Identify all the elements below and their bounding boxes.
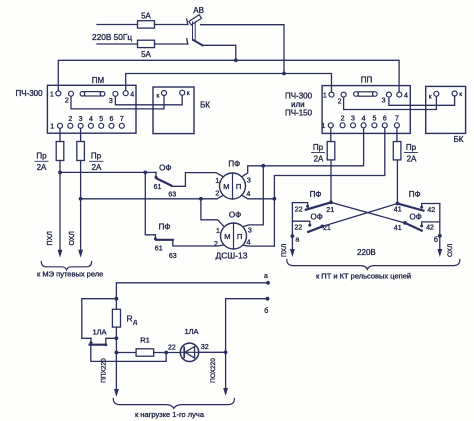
label 42 OF right — [426, 225, 434, 232]
junction T4 line / vertical B — [273, 197, 277, 201]
label PPH220 rotated — [101, 358, 108, 383]
svg-text:3: 3 — [351, 116, 355, 123]
svg-text:б: б — [434, 236, 438, 244]
junction node b — [438, 234, 442, 238]
svg-text:61: 61 — [154, 184, 162, 191]
svg-text:3: 3 — [109, 98, 113, 105]
junction L2/AV — [282, 72, 286, 76]
svg-text:6: 6 — [383, 116, 387, 123]
svg-text:4: 4 — [404, 93, 408, 100]
svg-text:2: 2 — [68, 116, 72, 123]
circuit breaker AV — [187, 15, 203, 46]
svg-text:ПХЛ: ПХЛ — [47, 231, 54, 246]
svg-text:220В 50Гц: 220В 50Гц — [92, 32, 132, 42]
svg-text:ПМ: ПМ — [92, 76, 105, 85]
label BK right — [454, 135, 464, 144]
junction node a bottom — [266, 281, 270, 285]
contact PF 42-41 fixed — [420, 204, 440, 209]
junction POH220 — [224, 350, 228, 354]
wire POH220 down — [223, 352, 228, 396]
svg-text:Пр: Пр — [406, 143, 417, 152]
PM bottom terminals 1-7 — [50, 116, 124, 130]
wire PP right fuse down — [396, 160, 398, 204]
svg-text:41: 41 — [394, 206, 402, 213]
svg-text:П: П — [237, 232, 242, 241]
wire diagonal D2 (PF-21 to OF-41) — [331, 202, 405, 223]
label 1LA lamp — [184, 327, 198, 336]
brace to ME track relays — [41, 262, 91, 270]
junction R1 row left — [115, 351, 119, 355]
wire left 22 vertical — [292, 203, 311, 227]
svg-text:к МЭ путевых реле: к МЭ путевых реле — [37, 270, 103, 279]
label OHL right rotated — [447, 244, 454, 257]
svg-text:2А: 2А — [314, 154, 324, 163]
contact OF 42-41 blade — [405, 223, 422, 231]
svg-text:д: д — [133, 319, 137, 326]
svg-text:ОХЛ: ОХЛ — [69, 231, 76, 246]
label node b — [434, 236, 438, 244]
wire node b line — [226, 299, 268, 353]
label DSSh1 pin1 — [215, 178, 219, 185]
capacitor block BK left box — [153, 87, 194, 134]
label Pr 2A right — [90, 152, 104, 172]
PM terminal 1 top — [50, 91, 61, 99]
svg-text:1ЛА: 1ЛА — [184, 327, 198, 336]
wire net L2 (AV pole1 to PM-4 and PP-1) — [126, 74, 332, 92]
junction L1/AV — [234, 58, 238, 62]
lamp arrester 1LA circle — [180, 343, 198, 361]
svg-text:42: 42 — [427, 207, 435, 214]
svg-text:22: 22 — [168, 344, 176, 351]
label OF left block — [311, 212, 323, 221]
wire 1LA branch — [82, 299, 117, 339]
wire node b down — [437, 222, 442, 257]
relay DSSh-13 element PF circle — [220, 173, 246, 199]
svg-text:2: 2 — [341, 116, 345, 123]
label 220V output — [357, 248, 376, 257]
label PF element — [228, 159, 240, 168]
svg-text:2: 2 — [338, 99, 342, 106]
junction node b bottom — [266, 297, 270, 301]
contact PF 61-63 blade — [156, 239, 173, 241]
fuse 5A bottom — [138, 40, 188, 47]
label 32 lamp — [201, 344, 209, 351]
svg-text:3: 3 — [382, 98, 386, 105]
contact PF 42-41 blade — [397, 204, 423, 211]
svg-text:42: 42 — [426, 225, 434, 232]
svg-text:П: П — [236, 182, 241, 191]
junction PHL/net P1 — [58, 171, 62, 175]
junction net P1 / OF contact — [143, 171, 147, 175]
capacitor block BK right box — [426, 86, 466, 133]
wire net P1 down to PF contact — [145, 172, 155, 234]
label DSSh2 pin2 — [214, 241, 218, 248]
label PF right block — [409, 190, 421, 199]
svg-text:1ЛА: 1ЛА — [92, 328, 106, 337]
svg-text:1: 1 — [321, 123, 325, 130]
svg-text:220В: 220В — [357, 248, 376, 257]
wire net P2 down to DSSh2 T1 — [201, 199, 224, 227]
svg-text:6: 6 — [110, 116, 114, 123]
svg-text:61: 61 — [155, 245, 163, 252]
svg-text:ПХЛ: ПХЛ — [281, 244, 288, 257]
wire 220V phase 2 input — [97, 43, 138, 45]
svg-text:Пр: Пр — [313, 143, 324, 152]
svg-text:к: к — [187, 90, 190, 97]
label OHL rotated — [69, 231, 76, 246]
jumper link PP 2-3 — [354, 92, 378, 97]
PM terminal 3 top — [109, 91, 118, 105]
svg-text:2: 2 — [65, 98, 69, 105]
junction left fuse / PF-21 — [329, 201, 333, 205]
PP terminal 4 top — [397, 92, 408, 100]
fuse Pr 2A PP left — [327, 142, 335, 160]
label DSSh2 pin4 — [247, 240, 251, 247]
junction 1LA/main — [115, 336, 119, 340]
wire AV pole1 output — [201, 25, 284, 74]
label Pr 2A PP left — [312, 143, 325, 164]
label POH220 rotated — [210, 358, 217, 383]
svg-text:Пр: Пр — [36, 152, 47, 161]
junction OF-21 — [320, 225, 324, 229]
wire DSSh1 T3 to PP-4 — [242, 128, 364, 177]
svg-text:к: к — [156, 92, 159, 99]
label Pr 2A left — [35, 152, 48, 172]
svg-text:М: М — [223, 182, 229, 191]
label PHL right rotated — [281, 244, 288, 257]
svg-text:2А: 2А — [407, 154, 417, 163]
label PHL rotated — [47, 231, 54, 246]
contact 1LA blade — [90, 343, 108, 346]
wire PP bottom 1 to fuse — [330, 128, 332, 141]
wire DSSh1 T4 — [242, 195, 275, 199]
svg-text:4: 4 — [247, 240, 251, 247]
wire 1LA blade to main — [106, 338, 117, 344]
resistor Rd — [112, 309, 120, 327]
label k PT i KT relsovyh cepей — [316, 272, 411, 281]
contact PF 61-63 fixed — [154, 235, 157, 241]
label DSSh1 pin3 — [247, 178, 251, 185]
wire to R1 — [116, 352, 136, 354]
wire OF blade to DSSh1 T1 — [171, 173, 223, 187]
label 5A top — [141, 12, 151, 21]
label BK left — [200, 100, 210, 109]
BK left terminal k2 — [180, 90, 190, 97]
label OF upper contact — [159, 164, 171, 173]
label PCh-300 — [15, 89, 43, 98]
wire PM-2 to BK left k — [71, 96, 164, 109]
label DSSh2 pin3 — [248, 228, 252, 235]
svg-text:5А: 5А — [141, 50, 151, 59]
label 5A bottom — [141, 50, 151, 59]
label 1LA contact — [92, 328, 106, 337]
wire PP bottom 7 to fuse — [396, 128, 398, 141]
svg-text:63: 63 — [169, 253, 177, 260]
label DSSh1 pin4 — [246, 191, 250, 198]
junction net P2 / DSSh2 T1 — [199, 197, 203, 201]
svg-text:3: 3 — [79, 116, 83, 123]
wire net P2 horizontal to DSSh1 T2 — [81, 195, 224, 199]
relay DSSh-13 element OF circle — [221, 223, 247, 249]
transformer PM box — [47, 85, 136, 133]
wire lamp to POH220 — [199, 351, 226, 353]
label 21 OF left — [323, 225, 331, 232]
resistor R1 — [136, 349, 154, 356]
label OF right block — [410, 212, 422, 221]
svg-text:5: 5 — [99, 116, 103, 123]
label PF left block — [310, 190, 322, 199]
svg-text:1: 1 — [50, 91, 54, 98]
label Rd — [127, 314, 138, 326]
PP terminal 2 top — [338, 92, 346, 106]
label 63 lower — [169, 253, 177, 260]
contact PF 22-21 blade — [306, 202, 331, 209]
svg-text:к: к — [459, 91, 462, 98]
svg-text:21: 21 — [323, 225, 331, 232]
wire 220V phase 1 input — [97, 24, 138, 26]
label 61 lower — [155, 245, 163, 252]
junction right fuse / PF-41 — [396, 202, 400, 206]
svg-text:БК: БК — [454, 135, 464, 144]
junction T3 line / vertical A — [261, 164, 265, 168]
wire right 42 vertical — [420, 204, 440, 228]
svg-text:4: 4 — [130, 91, 134, 98]
svg-text:4: 4 — [246, 191, 250, 198]
label PM — [92, 76, 105, 85]
wire PP left fuse down — [330, 160, 332, 203]
svg-text:ПФ: ПФ — [228, 159, 240, 168]
svg-text:ОФ: ОФ — [311, 212, 323, 221]
svg-text:ПЧ-150: ПЧ-150 — [285, 109, 313, 118]
svg-text:22: 22 — [295, 206, 303, 213]
fuse Pr 2A left — [56, 142, 64, 161]
svg-text:7: 7 — [120, 116, 124, 123]
label node a — [295, 237, 299, 244]
label 63 upper — [168, 192, 176, 199]
junction node a — [291, 234, 295, 238]
svg-text:ПФ: ПФ — [409, 190, 421, 199]
label node a bottom — [264, 273, 268, 280]
svg-text:АВ: АВ — [193, 6, 204, 15]
contact PF 22-21 fixed — [292, 203, 309, 208]
wire node a line bottom — [116, 283, 268, 310]
wire PM bottom 1 to fuse — [59, 129, 61, 142]
svg-text:к ПТ и КТ рельсовых цепей: к ПТ и КТ рельсовых цепей — [316, 272, 411, 281]
svg-text:а: а — [264, 273, 268, 280]
PP terminal 1 top — [323, 92, 334, 100]
label 22 lamp — [168, 344, 176, 351]
svg-text:2: 2 — [215, 191, 219, 198]
svg-text:3: 3 — [247, 178, 251, 185]
svg-text:2А: 2А — [37, 163, 47, 172]
wire vertical A (DSSh2 T3 tie) — [243, 166, 264, 227]
label node b bottom — [264, 307, 268, 315]
svg-text:а: а — [295, 237, 299, 244]
wire OHL — [78, 161, 83, 258]
wire R1 to lamp — [154, 352, 181, 354]
label 21 PF left — [326, 207, 334, 214]
junction OHL/net P2 — [79, 197, 83, 201]
svg-text:63: 63 — [168, 192, 176, 199]
svg-text:1: 1 — [215, 178, 219, 185]
wire PM bottom 3 to fuse — [80, 129, 82, 142]
contact OF 61-63 blade — [156, 178, 171, 185]
junction OF-41 — [403, 221, 407, 225]
svg-text:ПП: ПП — [361, 75, 373, 84]
junction Rd bypass top — [115, 297, 119, 301]
label PCh-300 ili PCh-150 — [285, 92, 313, 118]
svg-text:32: 32 — [201, 344, 209, 351]
wire PHL — [58, 161, 63, 258]
svg-text:к нагрузке 1-го луча: к нагрузке 1-го луча — [135, 410, 205, 419]
label R1 — [140, 335, 150, 344]
label k ME putevyh rele — [37, 270, 103, 279]
svg-text:1: 1 — [216, 228, 220, 235]
svg-text:ОФ: ОФ — [410, 212, 422, 221]
fuse 5A top — [138, 21, 188, 28]
label PF lower contact — [159, 222, 171, 231]
label 22 OF left — [294, 225, 302, 232]
svg-text:б: б — [264, 307, 268, 315]
PP bottom terminals 1-7 — [321, 116, 399, 130]
svg-text:5А: 5А — [141, 12, 151, 21]
fuse Pr 2A PP right — [393, 142, 401, 160]
brace to PT KT track circuits — [287, 260, 460, 270]
label 42 PF right — [427, 207, 435, 214]
label AV — [193, 6, 204, 15]
wire net P1 horizontal — [60, 171, 156, 173]
svg-text:5: 5 — [372, 116, 376, 123]
label DSSh1 pin2 — [215, 191, 219, 198]
brace to load of 1st ray — [113, 399, 234, 409]
svg-text:ОХЛ: ОХЛ — [447, 244, 454, 257]
wire PM-3 to BK right k — [115, 96, 182, 105]
svg-text:R: R — [127, 314, 133, 324]
svg-text:1: 1 — [50, 124, 54, 131]
wire net L1 (AV pole2 to PM-1 and PP-4) — [58, 60, 399, 92]
wire diagonal D1 (PF-41 to OF-21) — [322, 204, 397, 227]
svg-text:3: 3 — [248, 228, 252, 235]
svg-text:2А: 2А — [92, 163, 102, 172]
label DSSh2 pin1 — [216, 228, 220, 235]
svg-text:М: М — [224, 232, 230, 241]
svg-text:Пр: Пр — [91, 152, 102, 161]
svg-text:21: 21 — [326, 207, 334, 214]
wire PP-3 to BK-right right k — [389, 96, 455, 105]
contact OF 61-63 fixed — [155, 172, 158, 178]
BK right terminal k2 — [452, 91, 462, 98]
wire PP-2 to BK-right left k — [344, 97, 437, 110]
label DSSh-13 — [216, 250, 248, 260]
svg-text:БК: БК — [200, 100, 210, 109]
transformer PP box — [322, 86, 410, 134]
svg-text:ПФ: ПФ — [159, 222, 171, 231]
contact 1LA fixed — [90, 338, 93, 344]
label OF element — [229, 210, 241, 219]
wire PF blade to DSSh2 T2 — [173, 240, 225, 246]
svg-text:ДСШ-13: ДСШ-13 — [216, 250, 248, 260]
label 220V 50Hz — [92, 32, 132, 42]
svg-text:22: 22 — [294, 225, 302, 232]
svg-text:ПЧ-300: ПЧ-300 — [15, 89, 43, 98]
fuse Pr 2A right — [77, 142, 85, 161]
wire vertical B (T4 tie to PP-6) — [274, 128, 384, 246]
svg-text:к: к — [429, 93, 432, 100]
wire 1LA fixed to R1 bypass — [91, 345, 166, 361]
svg-text:R1: R1 — [140, 335, 150, 344]
svg-text:ОФ: ОФ — [159, 164, 171, 173]
svg-text:41: 41 — [394, 225, 402, 232]
svg-text:2: 2 — [214, 241, 218, 248]
label 41 PF right — [394, 206, 402, 213]
label Pr 2A PP right — [405, 143, 418, 164]
svg-text:1: 1 — [323, 93, 327, 100]
wire main vertical below Rd — [114, 327, 119, 397]
svg-text:4: 4 — [89, 116, 93, 123]
wire node a down — [290, 221, 295, 257]
junction R1 output — [164, 351, 168, 355]
wire AV pole2 output — [203, 45, 236, 60]
label 61 upper — [154, 184, 162, 191]
PM terminal 2 top — [65, 91, 74, 104]
svg-text:7: 7 — [395, 116, 399, 123]
label k nagruzke 1-go lucha — [135, 410, 205, 419]
svg-text:ПОХ220: ПОХ220 — [210, 358, 217, 383]
PM terminal 4 top — [123, 91, 134, 99]
svg-text:ППХ220: ППХ220 — [101, 358, 108, 383]
BK left terminal k1 — [156, 91, 166, 100]
contact OF 22-21 blade — [308, 226, 322, 232]
BK right terminal k1 — [429, 91, 439, 100]
svg-text:ОФ: ОФ — [229, 210, 241, 219]
label 41 OF right — [394, 225, 402, 232]
label 22 PF left — [295, 206, 303, 213]
svg-text:ПФ: ПФ — [310, 190, 322, 199]
svg-text:4: 4 — [362, 116, 366, 123]
wire DSSh2 T4 stub — [243, 244, 275, 247]
PP terminal 3 top — [382, 92, 392, 105]
jumper link PM 2-3 — [80, 92, 105, 97]
label PP — [361, 75, 373, 84]
